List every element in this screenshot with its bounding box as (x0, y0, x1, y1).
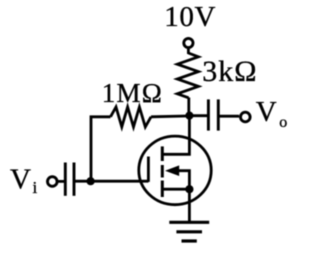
capacitor C out plate left (207, 99, 210, 130)
terminal Vi (48, 177, 58, 187)
svg-text:i: i (33, 178, 38, 197)
transistor M1 channel dash top (161, 146, 164, 161)
svg-text:V: V (256, 96, 277, 128)
wire C out to Vo terminal (218, 115, 239, 118)
wire R 1M to drain node (151, 115, 186, 119)
wire Vi terminal to C in (57, 180, 65, 183)
wire gate node to gate (91, 180, 149, 183)
wire source connection (163, 188, 189, 191)
capacitor C in plate left (64, 163, 67, 196)
svg-text:1MΩ: 1MΩ (102, 78, 163, 108)
node gate junction (87, 177, 95, 185)
transistor M1 gate bar (147, 157, 150, 182)
resistor R 1M (111, 107, 152, 127)
wire drain connection (162, 113, 189, 154)
ground bar 3 (182, 239, 197, 242)
ground bar 2 (176, 230, 202, 233)
resistor 3k (177, 53, 198, 98)
transistor M1 body circle (139, 136, 211, 205)
node source-body junction (185, 185, 193, 193)
transistor M1 body arrow (165, 165, 179, 176)
svg-text:o: o (279, 114, 287, 131)
ground bar 1 (169, 221, 209, 224)
wire gate node up (91, 117, 111, 181)
svg-text:3kΩ: 3kΩ (202, 55, 257, 88)
node drain junction (185, 112, 193, 120)
wire VDD to R 3k (187, 48, 190, 54)
capacitor C out plate right (217, 99, 220, 130)
svg-text:V: V (10, 163, 31, 195)
wire R 3k to drain node (187, 98, 190, 117)
wire drain node to C out (189, 114, 207, 117)
svg-text:10V: 10V (164, 1, 216, 33)
wire body connection (172, 171, 189, 190)
transistor M1 channel dash bottom (161, 181, 164, 198)
terminal VDD (10V) (184, 38, 193, 47)
transistor M1 channel dash middle (161, 165, 164, 178)
wire C in to gate node (74, 180, 91, 183)
terminal Vo (241, 112, 251, 122)
capacitor C in plate right (73, 163, 76, 196)
wire source to ground (188, 189, 191, 222)
